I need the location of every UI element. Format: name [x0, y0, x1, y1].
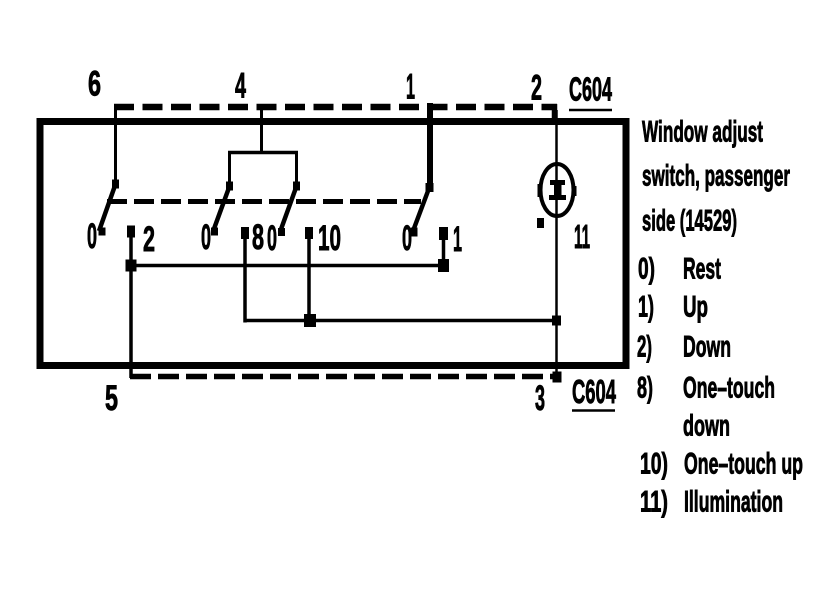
svg-text:switch, passenger: switch, passenger	[642, 160, 790, 193]
svg-text:1: 1	[453, 220, 462, 259]
svg-text:down: down	[683, 410, 730, 443]
svg-text:2: 2	[143, 220, 155, 259]
svg-text:side (14529): side (14529)	[642, 205, 737, 238]
wire pin 1 to switch S4 pivot (thick)	[427, 103, 433, 188]
svg-text:Illumination: Illumination	[684, 486, 783, 519]
svg-text:10: 10	[318, 219, 341, 258]
connector C604 top label	[569, 71, 612, 111]
svg-text:Up: Up	[683, 291, 708, 324]
wire linking terminal 2 to terminal 1	[130, 264, 446, 268]
svg-text:3: 3	[535, 379, 545, 418]
switch S2 (pivot dot and lever)	[211, 182, 233, 236]
svg-text:One–touch: One–touch	[683, 372, 775, 405]
switch S4 (pivot dot and lever)	[411, 183, 434, 237]
svg-text:0: 0	[402, 219, 412, 258]
terminal 1 (contact dot and stub)	[439, 227, 448, 267]
svg-text:0: 0	[201, 218, 211, 257]
svg-text:Down: Down	[683, 331, 731, 364]
svg-text:1: 1	[406, 68, 415, 107]
connector C604 bottom label	[572, 373, 616, 411]
lamp L1 illumination bulb	[538, 164, 577, 216]
svg-text:0: 0	[87, 217, 97, 256]
terminal 10 (contact dot and stub)	[305, 227, 313, 321]
wire pin 2 through lamp to pin 3	[555, 104, 557, 379]
svg-text:8: 8	[252, 218, 264, 257]
svg-text:Window adjust: Window adjust	[642, 116, 763, 149]
svg-text:11: 11	[574, 218, 590, 255]
svg-text:C604: C604	[572, 373, 616, 410]
svg-text:0: 0	[267, 219, 277, 258]
svg-text:11): 11)	[640, 486, 668, 519]
switch common position dashed line	[107, 199, 421, 204]
svg-text:10): 10)	[640, 448, 668, 481]
svg-text:1): 1)	[638, 291, 654, 324]
wire pin 4 feed to S2 and S3	[228, 110, 298, 186]
terminal 2 (contact dot and stub)	[127, 226, 135, 379]
wire pin 6 to switch S1 pivot	[114, 104, 117, 184]
junction dot at terminal 1 wire	[438, 259, 449, 272]
svg-text:0): 0)	[638, 253, 655, 286]
junction dot at terminal 10 wire	[304, 314, 316, 327]
svg-text:6: 6	[88, 65, 101, 104]
svg-text:One–touch up: One–touch up	[684, 448, 803, 481]
svg-text:Rest: Rest	[683, 253, 721, 286]
junction dot at lamp branch	[552, 316, 561, 326]
switch body outline (window adjust switch)	[40, 122, 626, 366]
wire linking terminal 8 and 10 to lamp branch	[244, 319, 558, 323]
connector C604 bottom dashed bus	[130, 372, 562, 383]
svg-text:5: 5	[105, 379, 118, 418]
junction dot at terminal 2 wire	[126, 260, 137, 272]
svg-text:8): 8)	[637, 372, 653, 405]
terminal 8 (contact dot and stub)	[241, 227, 249, 323]
connector C604 top dashed bus	[114, 104, 557, 111]
svg-text:C604: C604	[569, 71, 612, 108]
switch S1 (pivot dot and lever)	[99, 180, 120, 236]
footnote mark left of lamp	[537, 218, 544, 228]
svg-text:4: 4	[235, 67, 246, 106]
svg-text:2): 2)	[637, 331, 652, 364]
svg-text:2: 2	[531, 69, 542, 108]
switch S3 (pivot dot and lever)	[278, 182, 300, 237]
